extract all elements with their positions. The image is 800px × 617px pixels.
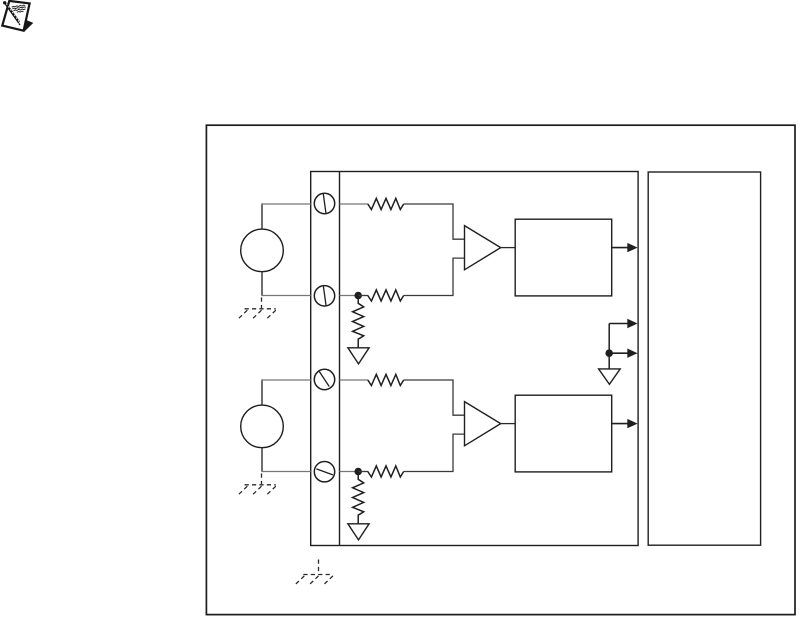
ground triangle below J3 (599, 369, 621, 384)
wire VS1- to terminal (261, 295, 310, 297)
wire VS2+ vertical (261, 379, 263, 405)
ground (dashed) under VS2 (237, 474, 276, 497)
wire R1 to op-amp A1 upper input (404, 204, 465, 239)
node J2 (354, 468, 362, 476)
node J1 (354, 292, 362, 300)
ground triangle below R6 (348, 524, 369, 540)
note icon pencil (6, 4, 19, 23)
wire J1 to R2 (358, 295, 368, 297)
wire S3 to R4 (340, 379, 369, 381)
wire J3 to ground (608, 353, 610, 369)
wire VS2+ to terminal (261, 379, 310, 381)
screw terminal S4 (314, 462, 334, 482)
note icon scribbles (12, 5, 26, 12)
note icon paper (2, 1, 29, 31)
ground (dashed) under VS1 (237, 298, 276, 321)
wire VS1+ to terminal (261, 203, 310, 205)
screw terminal S1 (314, 193, 334, 213)
arrow B2 to connector (612, 423, 629, 425)
amplifier box B2 (515, 395, 612, 472)
wire R5 to op-amp A2 lower input (404, 434, 465, 471)
wire VS1- vertical (261, 272, 263, 296)
wire S1 to R1 (340, 203, 369, 205)
note icon pencil knob (3, 1, 6, 4)
node J3 (605, 349, 613, 357)
op-amp A2 (465, 402, 501, 446)
resistor R6 (bias, vertical) (353, 472, 364, 524)
arrow lower AIGND (609, 352, 629, 354)
resistor R4 (368, 374, 404, 385)
arrow upper AISENSE (609, 323, 629, 325)
wire A2 output (501, 423, 516, 425)
resistor R3 (bias, vertical) (353, 296, 364, 348)
wire S2 to node J1 (340, 295, 357, 297)
terminal strip divider line (339, 172, 341, 546)
screw terminal S2 (314, 286, 334, 306)
ground triangle below R3 (348, 348, 369, 364)
terminal block / module rectangle (311, 172, 638, 546)
amplifier box B1 (515, 219, 612, 296)
wire VS2- to terminal (261, 471, 310, 473)
wire A1 output (501, 247, 516, 249)
wire R2 to op-amp A1 lower input (404, 258, 465, 295)
wire AISENSE branch vertical (608, 324, 610, 354)
ground (dashed) under terminal block (294, 560, 333, 586)
screw terminal S3 (314, 369, 334, 389)
resistor R1 (368, 198, 404, 209)
arrow B1 to connector (612, 247, 629, 249)
voltage source VS2 (241, 405, 284, 448)
wire S4 to node J2 (340, 471, 357, 473)
note icon pencil tip (18, 22, 20, 26)
wire R4 to op-amp A2 upper input (404, 380, 465, 415)
wire J2 to R5 (358, 471, 368, 473)
voltage source VS1 (241, 229, 284, 272)
wire VS1+ vertical (261, 203, 263, 229)
wire VS2- vertical (261, 448, 263, 472)
op-amp A1 (465, 226, 501, 270)
note icon shadow (20, 19, 33, 32)
outer figure frame (206, 125, 795, 614)
resistor R2 (368, 290, 404, 301)
resistor R5 (368, 466, 404, 477)
connector rectangle (648, 172, 760, 545)
